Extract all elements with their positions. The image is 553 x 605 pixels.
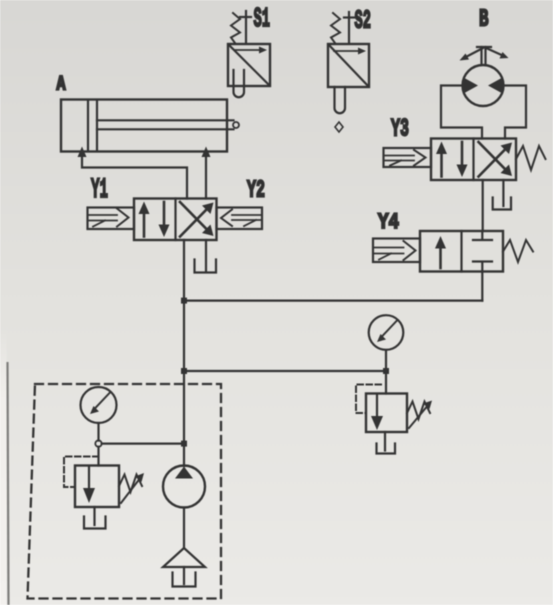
motor loop wires (441, 86, 482, 139)
page left edge shadow line (8, 362, 9, 605)
Y4 right square blocked ports (481, 231, 483, 240)
svg-text:Y2: Y2 (247, 178, 265, 205)
pressure gauge 2 (369, 315, 404, 350)
S2 diamond (335, 122, 343, 132)
branch junction dot 2 (181, 368, 187, 374)
relief valve 2 adjust arrow (409, 404, 429, 428)
relief valve 2 inlet (385, 371, 387, 394)
wire cylinder left port (82, 152, 187, 199)
S2 diagonal (329, 45, 369, 87)
relief valve 1 tank (84, 517, 106, 529)
relief valve 2 tank (377, 444, 396, 454)
Y3 left square arrows (440, 152, 443, 177)
relief valve 2 body (366, 394, 407, 433)
gauge 1 stem (97, 423, 99, 441)
relief valve 2 spring (407, 402, 430, 420)
solenoid Y2 (217, 208, 263, 230)
svg-text:S1: S1 (254, 5, 271, 35)
Y1Y2 right square crossed arrows (180, 211, 206, 237)
S2 inner arrow (334, 50, 362, 52)
S1 inner arrow (235, 49, 263, 51)
relief valve 1 outlet (93, 507, 95, 525)
solenoid Y4 (373, 239, 420, 263)
junction dot (181, 298, 187, 304)
valve tank wire (205, 240, 207, 271)
Y3 right square crossed arrows (479, 151, 505, 177)
relief valve 1 adjust arrow (121, 477, 141, 503)
wire Y4 bottom to manifold (481, 272, 483, 301)
cylinder A body (61, 100, 227, 152)
cylinder A piston (87, 100, 89, 151)
port arrow right (202, 147, 211, 158)
power unit dashed enclosure (28, 384, 222, 599)
pump circle (163, 466, 205, 508)
S2 plunger (335, 87, 346, 113)
junction dot gauge2 (383, 368, 389, 374)
cylinder A rod (97, 119, 234, 121)
valve Y3 body (431, 139, 516, 181)
relief valve 1 pilot dashed (64, 457, 99, 488)
svg-text:A: A (57, 74, 67, 97)
motor B left triangle (464, 78, 479, 94)
wire node to pump line (102, 443, 184, 445)
S1 spring (231, 13, 240, 43)
Y1Y2 left square arrows (143, 212, 146, 237)
pump triangle (175, 467, 193, 479)
pressure gauge 1 (81, 387, 117, 423)
port arrow left (78, 147, 87, 158)
valve tank symbol (195, 260, 217, 273)
relief valve 1 inlet (97, 447, 99, 466)
svg-text:Y1: Y1 (91, 175, 108, 206)
relief valve 2 pilot dashed (356, 385, 381, 414)
relief valve 1 body (75, 466, 119, 508)
valve Y4 body (420, 231, 503, 272)
limit switch S1 box (228, 44, 270, 86)
manifold wire horizontal (184, 300, 482, 302)
Y4 left square arrow (439, 247, 442, 268)
S1 antenna (245, 11, 247, 43)
S1 diagonal (229, 45, 270, 86)
cylinder A rod end roller (233, 122, 239, 128)
motor B circle (463, 65, 504, 106)
svg-text:S2: S2 (355, 6, 372, 36)
relief valve 1 arrow (88, 467, 90, 491)
S2 spring (331, 13, 340, 43)
motor B right triangle (488, 78, 503, 94)
node circle (95, 440, 101, 446)
wire cylinder right port (205, 152, 207, 199)
wire Y3 to Y4 (482, 180, 484, 231)
relief valve 2 outlet (384, 432, 386, 451)
solenoid Y1 (88, 208, 135, 230)
suction strainer triangle (163, 548, 205, 567)
S2 antenna (348, 12, 350, 43)
solenoid Y3 (384, 148, 432, 167)
Y3 tank symbol (493, 198, 511, 210)
junction dot pump (181, 441, 187, 447)
spring Y3 (516, 146, 546, 170)
pump suction wire (183, 508, 185, 549)
page left edge highlight (0, 0, 1, 1)
Y3 tank wire (502, 180, 504, 206)
pump tank symbol (173, 573, 196, 587)
motor B rotation arrows (480, 47, 482, 65)
relief valve 2 arrow (376, 395, 378, 420)
svg-text:Y3: Y3 (391, 115, 409, 144)
relief valve 1 spring (119, 475, 142, 493)
S1 plunger (234, 70, 245, 97)
svg-text:Y4: Y4 (378, 209, 399, 235)
limit switch S2 box (328, 44, 369, 87)
svg-text:B: B (479, 7, 489, 34)
valve Y1/Y2 body (134, 199, 217, 241)
strainer stub (183, 567, 185, 584)
spring Y4 (503, 240, 533, 262)
gauge branch wire (184, 370, 386, 372)
main pressure wire (183, 240, 185, 466)
